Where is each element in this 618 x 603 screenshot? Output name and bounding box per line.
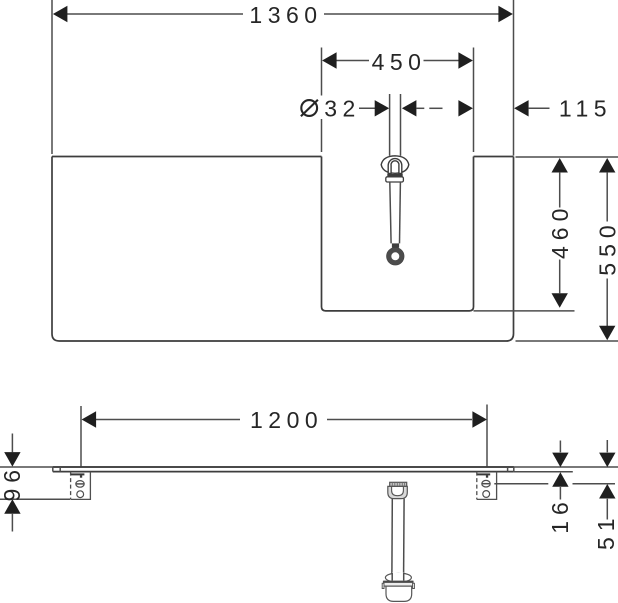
svg-text:32: 32 (324, 95, 361, 121)
svg-text:550: 550 (595, 219, 618, 275)
svg-text:460: 460 (547, 203, 573, 259)
svg-text:51: 51 (593, 512, 618, 550)
svg-text:115: 115 (559, 95, 612, 121)
svg-text:1360: 1360 (249, 2, 322, 28)
svg-text:1200: 1200 (250, 407, 323, 433)
svg-text:16: 16 (547, 496, 573, 534)
svg-text:96: 96 (0, 464, 25, 502)
svg-text:450: 450 (372, 49, 427, 75)
